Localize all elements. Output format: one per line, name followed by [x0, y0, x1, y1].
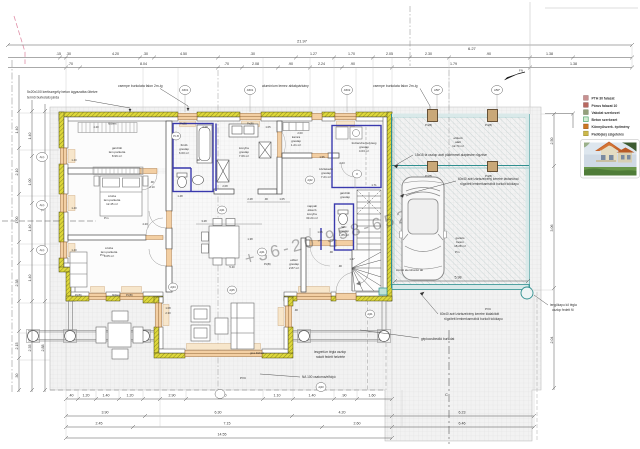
svg-text:1.27: 1.27 [310, 52, 317, 56]
svg-text:21.97: 21.97 [297, 39, 308, 44]
fence line at paving bottom [50, 389, 385, 391]
svg-text:6.27: 6.27 [468, 46, 477, 51]
paving step dashed right [536, 292, 538, 440]
bottom dimension chain 3 [64, 425, 536, 429]
garage post B [485, 110, 498, 128]
svg-text:.30: .30 [66, 52, 71, 56]
leader note: aluminium [262, 84, 309, 88]
note: fa oszlop leader [415, 153, 487, 157]
door wc (orange) [336, 241, 353, 246]
svg-text:Beton szerkezet: Beton szerkezet [592, 118, 619, 122]
bathtub [197, 125, 212, 163]
svg-text:Pn(B): Pn(B) [75, 293, 82, 297]
interior wall: kitchen lower [214, 189, 277, 194]
window W-bot1 [89, 294, 106, 300]
dimension chain: top line 2 [8, 56, 634, 60]
svg-text:FN: FN [519, 69, 523, 73]
door szoba2 [146, 218, 163, 240]
svg-text:csempe burkolata falon 2m-ig: csempe burkolata falon 2m-ig [373, 84, 418, 88]
right small chain top [545, 112, 575, 129]
svg-text:2.10: 2.10 [15, 169, 19, 176]
bottom dimension chain 2 [64, 414, 536, 418]
svg-text:Pn(B): Pn(B) [126, 293, 133, 297]
garage bottom band [392, 285, 529, 290]
door tisztaruha [341, 163, 355, 188]
window W-left1 [61, 148, 67, 164]
svg-text:2.03: 2.03 [339, 161, 345, 165]
svg-text:1.48: 1.48 [177, 194, 183, 198]
room label: nappali [306, 204, 318, 220]
svg-text:A502: A502 [344, 88, 351, 92]
svg-text:4.50: 4.50 [180, 52, 187, 56]
room label: gardrob [109, 146, 126, 158]
dimension chain: top line 3 [8, 66, 634, 70]
legend swatch 3 [584, 110, 621, 115]
house photo card [581, 140, 640, 179]
garage middle rail [392, 166, 529, 169]
column P5 [378, 330, 391, 343]
bed (szoba1) [94, 176, 148, 216]
window bay-left [156, 303, 162, 327]
shelf dash line in tisztaruha [365, 127, 367, 186]
room label: szoba1 [104, 194, 121, 206]
dashed step lines below entrance [368, 301, 387, 390]
svg-text:Pn(B): Pn(B) [180, 122, 187, 126]
reference bubbles on top [180, 86, 503, 95]
svg-text:1.60: 1.60 [369, 394, 376, 398]
interior wall: corridor vertical x=166 [166, 121, 172, 292]
terrace sliding door (bay bottom) [185, 351, 262, 357]
svg-text:A(x): A(x) [40, 248, 45, 252]
svg-text:.90: .90 [288, 62, 293, 66]
svg-text:Padló(ás) szigetelés: Padló(ás) szigetelés [592, 132, 625, 136]
washbasin bath1 [193, 176, 204, 185]
entrance door [336, 272, 356, 300]
svg-text:.90: .90 [264, 197, 268, 201]
svg-text:2.05: 2.05 [386, 52, 393, 56]
house interior floor (lighter tile grid) [68, 121, 383, 349]
stair walking line [356, 192, 369, 286]
svg-text:3.06: 3.06 [550, 225, 554, 232]
svg-text:2.04: 2.04 [550, 337, 554, 344]
interior wall: kamra bottom [282, 153, 339, 158]
bottom dimension chain 4 (total) [64, 436, 394, 440]
car in garage [400, 177, 447, 280]
watermark phone number [243, 203, 425, 269]
svg-text:2.24: 2.24 [318, 62, 325, 66]
axis line above garage right [529, 2, 531, 107]
site paving with tile grid [50, 107, 541, 441]
svg-text:7.21 m²: 7.21 m² [321, 175, 331, 179]
svg-text:1.08: 1.08 [165, 306, 171, 310]
svg-text:rögzített lemberkamrából burko: rögzített lemberkamrából burkolt tolókap… [444, 317, 503, 321]
svg-text:7.15: 7.15 [224, 422, 231, 426]
svg-text:2.08: 2.08 [202, 125, 208, 129]
svg-text:oszlop fedett fő: oszlop fedett fő [552, 308, 574, 312]
svg-text:Pm: Pm [455, 250, 460, 254]
north arrow [505, 69, 526, 81]
legend swatch 6 [584, 131, 625, 136]
room label: konyha [239, 146, 249, 158]
svg-text:1.55: 1.55 [319, 155, 325, 159]
svg-text:Pórus falazat 10: Pórus falazat 10 [592, 104, 618, 108]
armchairs living [191, 306, 210, 341]
svg-text:3.90: 3.90 [102, 411, 109, 415]
svg-text:fűtőtest: fűtőtest [108, 122, 117, 126]
svg-text:12.45 m²: 12.45 m² [106, 202, 118, 206]
svg-text:5.98: 5.98 [455, 276, 462, 280]
svg-text:1.20: 1.20 [83, 394, 90, 398]
axis dash line C upper [448, 70, 450, 167]
svg-text:Vakolat szerkezet: Vakolat szerkezet [592, 111, 621, 115]
svg-text:.90: .90 [350, 62, 355, 66]
svg-text:60x40 acél zártszelvény keretr: 60x40 acél zártszelvény keretre kialakít… [440, 312, 499, 316]
radiator labels tiny [75, 122, 271, 356]
room label: kamra [291, 135, 301, 147]
svg-text:6.60 m²: 6.60 m² [179, 151, 189, 155]
svg-text:NA 100 csatorna/elfolyó: NA 100 csatorna/elfolyó [302, 375, 336, 379]
parquet room floors (white) [68, 121, 166, 292]
svg-text:zúzott élemhordó tál: zúzott élemhordó tál [396, 268, 423, 272]
interior wall: kitchen/kamra vertical [277, 121, 282, 194]
exterior wall: top (yellow hatched segments) [59, 112, 392, 117]
window bay-right [286, 306, 292, 327]
svg-text:.90: .90 [338, 264, 342, 268]
pergola beam left [28, 331, 154, 342]
svg-text:1.05: 1.05 [265, 125, 271, 129]
axis dash line x=218 [217, 70, 219, 393]
column P2 [64, 330, 77, 343]
svg-text:2.28: 2.28 [247, 197, 253, 201]
svg-text:A501: A501 [247, 88, 254, 92]
terrace table [96, 311, 143, 359]
svg-text:4.20: 4.20 [93, 125, 99, 129]
svg-text:1.40: 1.40 [28, 275, 32, 282]
svg-text:6.23: 6.23 [459, 411, 466, 415]
garage post A [425, 110, 438, 128]
svg-text:2.60: 2.60 [354, 422, 361, 426]
toilet bath1 [177, 173, 187, 188]
svg-text:1.70: 1.70 [348, 52, 355, 56]
svg-text:1.47: 1.47 [349, 257, 355, 261]
svg-text:15x15 fa oszlop acél pödémmel: 15x15 fa oszlop acél pödémmel alaptestre… [415, 153, 487, 157]
svg-text:8.04: 8.04 [140, 62, 147, 66]
svg-text:A50*: A50* [434, 88, 441, 92]
svg-text:.90: .90 [196, 158, 200, 162]
svg-text:4.20: 4.20 [339, 411, 346, 415]
interior small dimension annotations [71, 125, 377, 315]
exterior wall: left (yellow segments) [59, 112, 75, 301]
door kamra-hall [312, 154, 328, 158]
room label: szoba2 [101, 246, 118, 258]
svg-text:.90: .90 [486, 52, 491, 56]
stairs: straight run [357, 190, 381, 250]
svg-text:4.20: 4.20 [112, 52, 119, 56]
section line left [2, 220, 96, 222]
plumbing wall: WC room (blue) [335, 204, 354, 250]
svg-text:1.00: 1.00 [15, 217, 19, 224]
legend swatch 1 [584, 96, 616, 101]
svg-text:Aj01: Aj01 [367, 312, 373, 316]
window sills inside [68, 121, 355, 350]
svg-text:1.40: 1.40 [309, 394, 316, 398]
window W-top3 [312, 114, 322, 120]
column P4 [298, 330, 311, 343]
interior dim line in nappali [148, 178, 310, 236]
svg-text:Aj01: Aj01 [219, 208, 225, 212]
extension lines from left wall to chains [20, 113, 66, 360]
interior wall: gardrob/szoba1 divider [68, 168, 140, 174]
legend swatch 2 [584, 103, 618, 108]
svg-text:PVC: PVC [485, 307, 492, 311]
svg-text:2.90: 2.90 [169, 394, 176, 398]
interior wall: eloter top with doors [306, 240, 336, 246]
extension line right of garage [530, 114, 556, 290]
laundry appliances top-right [336, 127, 362, 139]
window W-top4 [335, 114, 356, 120]
svg-text:.70: .70 [68, 62, 73, 66]
svg-text:.30: .30 [15, 374, 19, 379]
svg-text:Aj01: Aj01 [259, 250, 265, 254]
svg-text:.40: .40 [69, 394, 74, 398]
svg-text:1.40: 1.40 [15, 127, 19, 134]
svg-text:2.08: 2.08 [252, 62, 259, 66]
svg-text:csempe burkolata falon 2m-ig: csempe burkolata falon 2m-ig [118, 84, 163, 88]
svg-text:2.10: 2.10 [149, 185, 155, 189]
axis dash line C bottom [445, 330, 449, 444]
dining table with chairs [202, 219, 240, 266]
window W-bot2 [120, 294, 143, 300]
room label: tisztaruha [352, 141, 377, 153]
svg-text:Aj04: Aj04 [170, 285, 176, 289]
closet strip above bed [93, 167, 143, 175]
room label: wc [339, 225, 349, 237]
svg-text:rakott fedett helzérte: rakott fedett helzérte [316, 355, 345, 359]
window W-left3 [61, 242, 67, 258]
svg-text:1.40: 1.40 [28, 225, 32, 232]
svg-text:Pn(B): Pn(B) [485, 123, 492, 127]
svg-text:.90: .90 [294, 308, 298, 312]
svg-text:greslap: greslap [340, 195, 350, 199]
svg-text:1.21 m²: 1.21 m² [291, 143, 301, 147]
svg-text:Pn(B): Pn(B) [425, 123, 432, 127]
svg-text:2.88: 2.88 [41, 345, 45, 352]
svg-text:2.30: 2.30 [425, 52, 432, 56]
closet strip (gardrob) [78, 123, 137, 133]
svg-text:4.63 m²: 4.63 m² [359, 149, 369, 153]
window W-top2 [240, 114, 261, 120]
svg-text:2.08: 2.08 [222, 184, 228, 188]
kitchen counter with sink [229, 124, 258, 137]
interior wall: eloter/nappali vertical [301, 238, 306, 292]
boundary dash-dot line left [11, 60, 13, 392]
door kamra [278, 132, 286, 157]
svg-text:Pm: Pm [104, 216, 109, 220]
svg-text:1.40: 1.40 [71, 206, 77, 210]
note: NA100 [302, 375, 336, 379]
door szoba2 from hall [149, 249, 172, 266]
leader note: kerb text top-left [27, 90, 98, 100]
svg-text:Pn B: Pn B [173, 134, 179, 138]
legend swatch 5 [584, 124, 630, 129]
svg-text:A(x): A(x) [40, 203, 45, 207]
svg-text:2.30: 2.30 [165, 311, 171, 315]
fridge / tall cabinet [217, 160, 229, 182]
stove [259, 142, 271, 158]
svg-text:fűtőtest: fűtőtest [112, 293, 121, 297]
svg-text:.90: .90 [342, 394, 347, 398]
note: kapu bottom [440, 312, 503, 321]
svg-text:18.28 m²: 18.28 m² [454, 244, 466, 248]
svg-text:2.50: 2.50 [550, 138, 554, 145]
note: tolokapu [458, 177, 519, 186]
plumbing wall: kitchen (blue) [215, 124, 217, 192]
svg-text:6.30: 6.30 [215, 411, 222, 415]
svg-text:7.66 m²: 7.66 m² [239, 154, 249, 158]
bubbles inside plan [37, 132, 375, 399]
svg-text:1.79: 1.79 [450, 62, 457, 66]
svg-text:5.40: 5.40 [229, 265, 235, 269]
garage / carport hatched floor [392, 115, 530, 287]
svg-text:1.20: 1.20 [127, 394, 134, 398]
svg-text:60x40 acél zártszelvény keretr: 60x40 acél zártszelvény keretre távtartó… [458, 177, 519, 181]
kamra shelves [283, 123, 309, 131]
interior wall: szoba1/szoba2 divider [68, 235, 146, 240]
door szoba1 from hall [149, 211, 172, 228]
svg-text:1.40: 1.40 [103, 394, 110, 398]
toilet WC room [338, 210, 348, 225]
garage post C [425, 162, 438, 179]
leader note: csempe right [373, 84, 418, 88]
bottom dimension chain 1 [64, 397, 394, 401]
svg-text:12.74 m²: 12.74 m² [452, 144, 464, 148]
svg-text:33.24 m²: 33.24 m² [306, 216, 318, 220]
svg-text:3.28: 3.28 [201, 219, 207, 223]
sofa living [231, 303, 254, 349]
svg-text:lesgrett-m tégla oszlop: lesgrett-m tégla oszlop [314, 350, 346, 354]
gate pillar circle bottom-right [521, 287, 533, 299]
property line (pink dashed) [14, 16, 25, 64]
svg-text:alumínium lemez ablakpárkány: alumínium lemez ablakpárkány [262, 84, 309, 88]
svg-text:14.55: 14.55 [218, 433, 227, 437]
svg-text:Aj05: Aj05 [229, 288, 235, 292]
svg-text:rögzített lemberkamrából burko: rögzített lemberkamrából burkolt tolókap… [460, 182, 519, 186]
exterior wall: bottom of main body with windows and entrance [66, 296, 392, 303]
red finish codes [100, 216, 492, 380]
right dimension chain [552, 112, 556, 390]
exterior wall: right [387, 112, 392, 301]
room label: furdo [179, 143, 189, 155]
column P1 [27, 330, 40, 343]
wardrobe (szoba2) [70, 252, 87, 287]
svg-text:1.40: 1.40 [28, 133, 32, 140]
living-room bay: left wall [154, 297, 293, 358]
garage inner dimension 5.98 [393, 276, 530, 284]
window W-left2 [61, 194, 67, 212]
window W-top1 [178, 114, 197, 120]
svg-text:PTH 30 falazat: PTH 30 falazat [592, 97, 616, 101]
svg-text:9.05 m²: 9.05 m² [104, 254, 114, 258]
plumbing wall: bathroom (blue) [173, 124, 213, 193]
teal vent square at house corner [379, 288, 387, 295]
svg-text:Könnyűszerk. építmény: Könnyűszerk. építmény [592, 125, 630, 129]
left dimension chain 1 [17, 75, 21, 392]
svg-text:1.38: 1.38 [546, 52, 553, 56]
plumbing wall: tisztaruha room (blue box) [332, 126, 381, 188]
svg-text:8.96 m²: 8.96 m² [112, 154, 122, 158]
svg-text:1.40: 1.40 [71, 248, 77, 252]
stairs: winder fan [352, 250, 381, 291]
svg-text:.30: .30 [143, 52, 148, 56]
svg-text:gépkocsibeálló burkolat: gépkocsibeálló burkolat [421, 337, 454, 341]
axis dash line x=410 top [409, 6, 411, 66]
window W-bot3 [297, 294, 331, 300]
column P3 [138, 330, 151, 343]
label under car [396, 268, 423, 272]
garage post D [485, 162, 498, 179]
svg-text:Pm: Pm [100, 253, 105, 257]
svg-text:2.87 m²: 2.87 m² [289, 266, 299, 270]
svg-text:A(x): A(x) [40, 155, 45, 159]
svg-text:.70: .70 [224, 62, 229, 66]
svg-text:2.00: 2.00 [297, 131, 303, 135]
coffee table living [215, 318, 228, 334]
svg-text:1.10: 1.10 [274, 394, 281, 398]
room label: eloter [289, 258, 299, 270]
note: tegla oszlop [314, 350, 346, 359]
note: gepkocsi [421, 337, 454, 341]
room label: garazs [454, 236, 466, 248]
extension lines to bottom chains [66, 295, 534, 438]
svg-text:Aj02: Aj02 [307, 178, 313, 182]
svg-text:C: C [445, 392, 448, 397]
svg-text:1.38: 1.38 [570, 62, 577, 66]
leader note: csempe left [118, 84, 163, 88]
svg-text:2.15: 2.15 [15, 343, 19, 350]
door eloter (orange) [310, 241, 330, 267]
svg-text:.30: .30 [250, 52, 255, 56]
label: gk beallo [452, 136, 464, 148]
left dimension chain 2 [30, 100, 34, 392]
dimension chain: top total line 21.97 [6, 43, 634, 47]
top-right faint line [545, 7, 638, 9]
svg-text:1.00: 1.00 [28, 179, 32, 186]
svg-text:6.46: 6.46 [459, 422, 466, 426]
room label: gardrob2 [340, 191, 351, 199]
svg-text:Aj03: Aj03 [318, 385, 324, 389]
svg-text:.15: .15 [56, 52, 61, 56]
left dimension chain 3 [43, 104, 47, 392]
svg-text:.90: .90 [329, 250, 333, 254]
svg-text:5x20x100 kertiszegély beton ág: 5x20x100 kertiszegély beton ágyazatba ül… [27, 90, 98, 94]
garage outer frame (steel, teal double line) [392, 114, 530, 289]
svg-text:termő burkolatú járda: termő burkolatú járda [27, 96, 59, 100]
svg-text:4.20: 4.20 [142, 222, 148, 226]
svg-text:Pn(B): Pn(B) [247, 122, 254, 126]
note: lengokapu right [550, 303, 577, 312]
svg-text:A50*: A50* [494, 88, 501, 92]
door gardrob (orange) [140, 169, 157, 191]
svg-text:1.71: 1.71 [371, 183, 377, 187]
extension lines from top wall to chains [66, 46, 632, 114]
svg-text:1.05: 1.05 [279, 197, 285, 201]
svg-text:2.35: 2.35 [28, 345, 32, 352]
svg-text:2.45: 2.45 [96, 422, 103, 426]
svg-text:2.38: 2.38 [15, 280, 19, 287]
svg-text:1.38: 1.38 [247, 237, 253, 241]
svg-text:A501: A501 [182, 88, 189, 92]
legend swatch 4 [584, 117, 619, 122]
